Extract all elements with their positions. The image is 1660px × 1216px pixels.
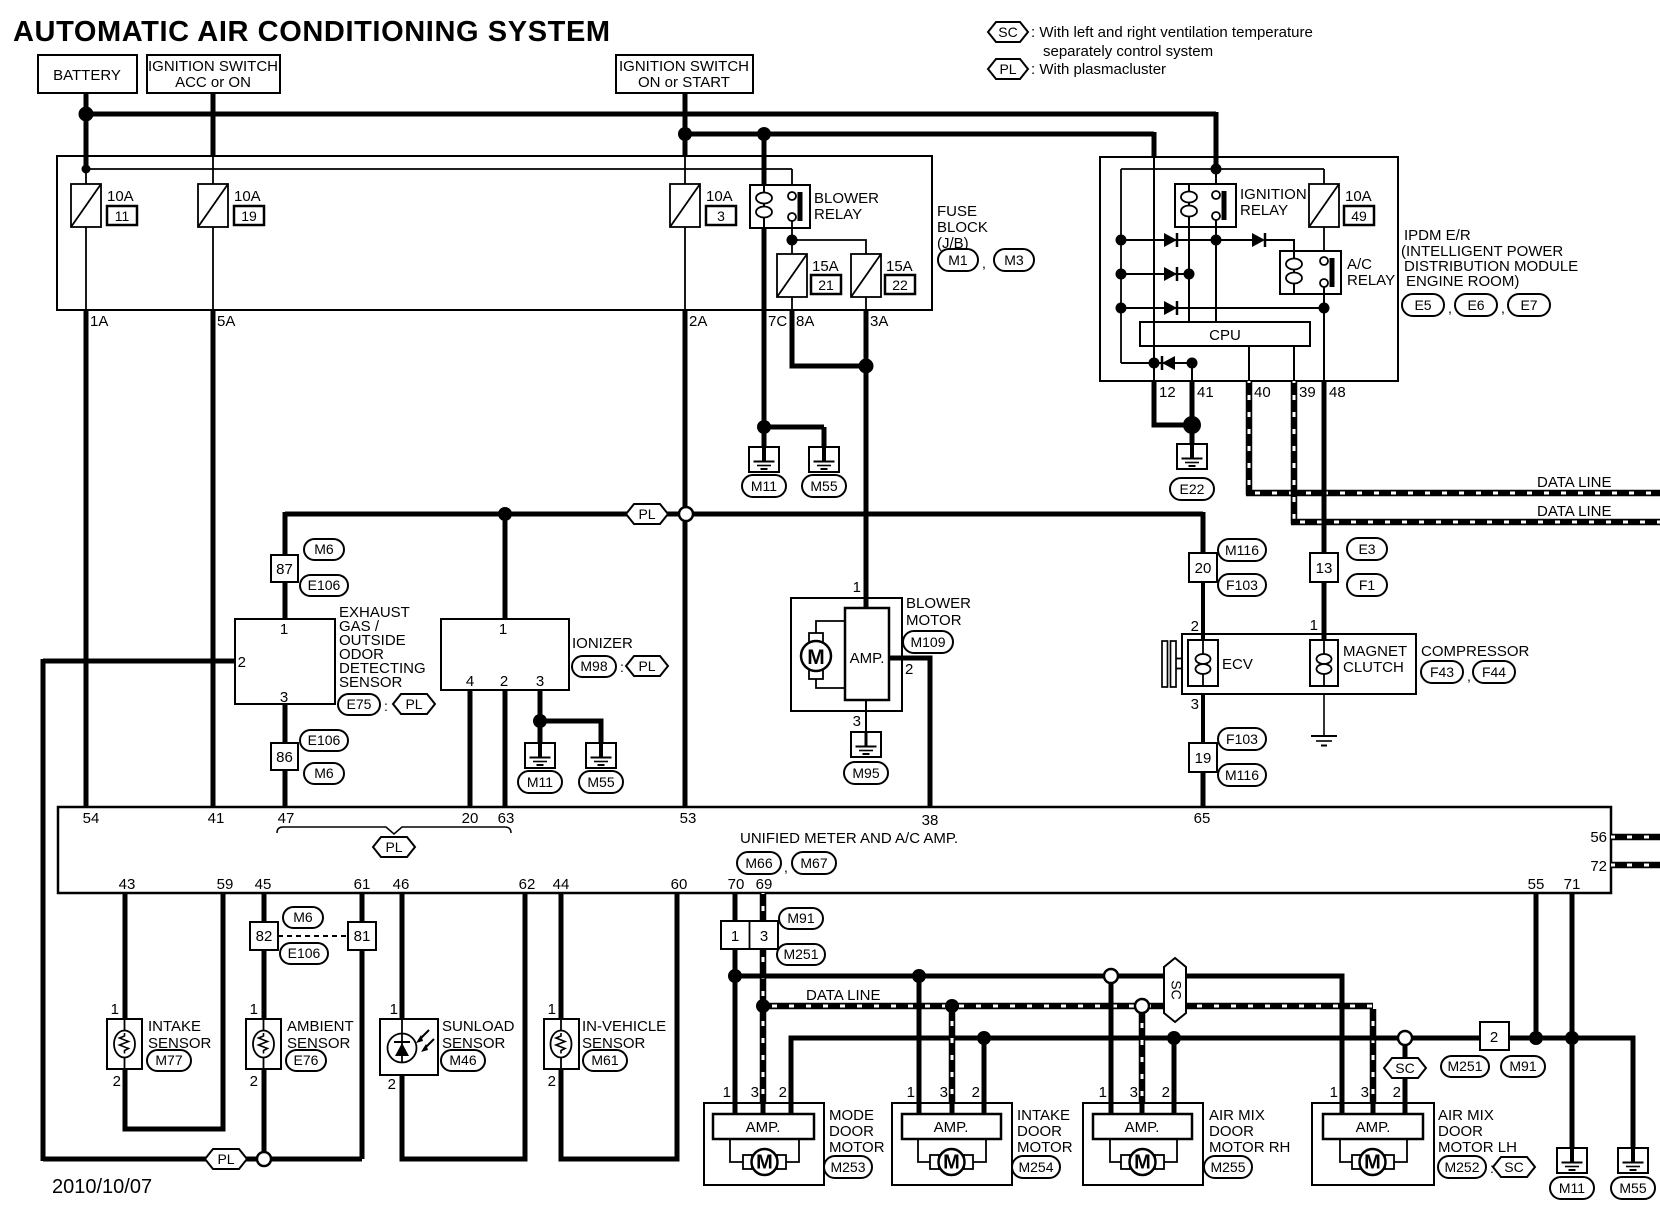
fuse 15A 21 — [777, 254, 841, 297]
ambient pin labels — [250, 1001, 258, 1090]
svg-text:2: 2 — [1393, 1084, 1401, 1101]
node ns1 intake — [912, 969, 926, 983]
wire 5A run — [211, 310, 216, 807]
connector 82 box — [250, 922, 278, 950]
connector oval E5 — [1402, 294, 1444, 316]
wire 72 data — [1611, 862, 1660, 869]
connector oval E6 — [1455, 294, 1497, 316]
air mix door motor RH — [1083, 1103, 1203, 1185]
svg-text:M: M — [1134, 1152, 1151, 1174]
diode row3 wire — [1121, 307, 1324, 309]
battery box — [38, 55, 137, 93]
connector oval E106 (86) — [300, 730, 348, 751]
svg-text:3: 3 — [536, 673, 544, 690]
node open circle ns2 — [1135, 999, 1149, 1013]
ground E22 — [1177, 444, 1207, 469]
connector oval E7 — [1508, 294, 1550, 316]
svg-text:MAGNET: MAGNET — [1343, 643, 1407, 660]
wire bus2 corner into IPDM — [1152, 132, 1157, 158]
ground M55 (bottom right) — [1618, 1148, 1648, 1173]
svg-text:E106: E106 — [308, 732, 341, 748]
wire 55 — [1534, 893, 1539, 1038]
wire ACC drop — [211, 93, 216, 157]
wire ionizer pin1 — [503, 514, 508, 619]
sunload sensor — [380, 1019, 438, 1075]
svg-text:MOTOR RH: MOTOR RH — [1209, 1139, 1290, 1156]
meter right pin labels — [1590, 829, 1607, 875]
connector 13 box — [1310, 553, 1338, 582]
wire ground branch — [540, 721, 601, 743]
svg-text:PL: PL — [217, 1151, 234, 1167]
svg-text:M77: M77 — [155, 1052, 182, 1068]
svg-text:M61: M61 — [591, 1052, 618, 1068]
ambient pin2 wire — [262, 1069, 267, 1159]
compressor box — [1182, 634, 1416, 694]
svg-text:2: 2 — [548, 1073, 556, 1090]
node ionizer ground split — [533, 714, 547, 728]
wire intake pin2 — [982, 1038, 987, 1114]
svg-text:PL: PL — [638, 658, 655, 674]
wire 8A run — [792, 310, 866, 366]
svg-text:F44: F44 — [1482, 664, 1506, 680]
svg-text:15A: 15A — [812, 258, 839, 275]
svg-text:44: 44 — [553, 876, 570, 893]
wire ECV pin3 — [1201, 694, 1205, 743]
svg-text:M6: M6 — [314, 541, 334, 557]
svg-text:MOTOR LH: MOTOR LH — [1438, 1139, 1517, 1156]
svg-text:43: 43 — [119, 876, 136, 893]
clutch earth — [1311, 694, 1337, 746]
svg-text:46: 46 — [393, 876, 410, 893]
fuse 10A 49 lead — [1323, 169, 1325, 184]
svg-text:PL: PL — [999, 61, 1016, 77]
svg-text:F43: F43 — [1430, 664, 1454, 680]
wire pin12 drop — [1154, 381, 1192, 425]
sunload pin2 wire — [402, 893, 525, 1159]
sunload pin labels — [388, 1001, 398, 1093]
PL hexagon (M98) — [626, 656, 668, 676]
svg-text:M251: M251 — [1447, 1058, 1482, 1074]
sunload label — [442, 1018, 515, 1052]
svg-text:61: 61 — [354, 876, 371, 893]
svg-text:M: M — [807, 646, 825, 669]
svg-text:7C: 7C — [768, 313, 787, 330]
connector 87 box — [271, 555, 298, 582]
connector oval M55 (ionizer) — [579, 771, 623, 793]
svg-text:3: 3 — [280, 689, 288, 706]
svg-text:3: 3 — [760, 928, 768, 945]
svg-text:5A: 5A — [217, 313, 235, 330]
svg-text:4: 4 — [466, 673, 474, 690]
connector oval M6 (87) — [304, 539, 344, 560]
node pin12 — [1149, 358, 1160, 369]
air mix rh pin labels — [1099, 1084, 1170, 1101]
svg-text:E7: E7 — [1520, 297, 1537, 313]
connector oval F44 — [1473, 661, 1515, 683]
in-vehicle sensor — [544, 1019, 579, 1069]
svg-text:22: 22 — [892, 277, 908, 293]
node ON bus at 7C — [757, 127, 771, 141]
connector 86 box — [271, 743, 298, 770]
svg-text:ON or START: ON or START — [638, 74, 730, 91]
svg-text:PL: PL — [385, 839, 402, 855]
svg-text:2: 2 — [113, 1073, 121, 1090]
wire data line 2 — [1291, 519, 1660, 526]
wire pin40 internal — [1248, 346, 1250, 381]
svg-text:2: 2 — [779, 1084, 787, 1101]
wire IPDM left rail — [1120, 169, 1122, 363]
svg-text:UNIFIED METER AND A/C AMP.: UNIFIED METER AND A/C AMP. — [740, 830, 958, 847]
air mix lh pin labels — [1330, 1084, 1401, 1101]
node open circle ns1 — [1104, 969, 1118, 983]
wire intake pin1 — [917, 976, 922, 1114]
diode row2 wire — [1121, 273, 1189, 275]
air mix lh label — [1438, 1107, 1517, 1156]
svg-text:F1: F1 — [1359, 577, 1376, 593]
connector 20 box — [1189, 553, 1217, 582]
svg-text:BATTERY: BATTERY — [53, 67, 121, 84]
connector oval M77 — [147, 1050, 191, 1071]
svg-text:21: 21 — [818, 277, 834, 293]
bus ns2 dashed — [763, 1003, 1373, 1010]
wire 71 — [1570, 893, 1575, 1148]
connector oval M6 (82) — [283, 907, 323, 928]
connector oval M67 — [792, 852, 836, 874]
node feed tap — [82, 165, 91, 174]
svg-text:RELAY: RELAY — [814, 206, 862, 223]
svg-text:E106: E106 — [308, 577, 341, 593]
svg-text:M67: M67 — [800, 855, 827, 871]
magnet clutch coil — [1310, 640, 1338, 686]
PL hexagon (bottom) — [205, 1149, 247, 1169]
connector oval M252 — [1438, 1156, 1486, 1178]
connector oval E106 (87) — [300, 575, 348, 596]
connector oval F103 (19) — [1218, 728, 1266, 750]
wire PL bus right corner — [1201, 512, 1206, 553]
blower motor brushes — [809, 633, 823, 643]
blower motor M — [801, 641, 831, 671]
svg-text:1: 1 — [1330, 1084, 1338, 1101]
svg-text:M255: M255 — [1210, 1159, 1245, 1175]
wire IPDM feed line — [1121, 168, 1324, 170]
svg-text:81: 81 — [354, 928, 371, 945]
wire fuse11 leads — [85, 169, 87, 184]
IPDM label — [1401, 227, 1578, 290]
connector oval M61 — [583, 1050, 627, 1071]
wire 3A run — [864, 310, 869, 608]
svg-text:DOOR: DOOR — [829, 1123, 874, 1140]
wire 44 — [559, 893, 564, 1019]
wire sensor pin2 — [43, 659, 235, 664]
blower motor outer box — [791, 598, 902, 711]
wire 46 — [400, 893, 405, 1019]
node 3A-8A — [859, 359, 874, 374]
svg-text:E22: E22 — [1180, 481, 1205, 497]
svg-text:: With plasmacluster: : With plasmacluster — [1031, 61, 1166, 78]
connector oval M11 (bottom right) — [1550, 1177, 1594, 1199]
svg-text:M3: M3 — [1004, 252, 1024, 268]
ignition switch ACC box — [147, 55, 280, 93]
svg-text:BLOWER: BLOWER — [906, 595, 971, 612]
connector oval M66 — [737, 852, 781, 874]
ground M11 (bottom right) — [1557, 1148, 1587, 1173]
ground M11 (ionizer) — [525, 743, 555, 768]
node row1 contact — [1211, 235, 1222, 246]
svg-text:PL: PL — [638, 506, 655, 522]
connector 2 box — [1480, 1022, 1509, 1050]
wire rh pin1 — [1109, 981, 1114, 1114]
in-vehicle label — [582, 1018, 666, 1052]
connector oval E3 — [1347, 538, 1387, 560]
svg-text:47: 47 — [278, 810, 295, 827]
svg-text:70: 70 — [728, 876, 745, 893]
intake door motor — [892, 1103, 1012, 1185]
node open circle 2A/53 — [679, 507, 693, 521]
node row3 right — [1319, 303, 1330, 314]
connector oval E106 (82) — [280, 943, 328, 964]
wire lh pin2 — [1403, 1043, 1408, 1114]
svg-text:62: 62 — [519, 876, 536, 893]
mode door motor label — [829, 1107, 885, 1156]
wire data line 1 — [1246, 490, 1660, 497]
ignition relay — [1175, 184, 1236, 227]
connector oval M109 — [903, 631, 953, 653]
svg-text:3: 3 — [1361, 1084, 1369, 1101]
wire fuse21 tail — [791, 297, 793, 310]
connector oval M11 (ionizer) — [518, 771, 562, 793]
unified meter box — [58, 807, 1611, 893]
connector oval M55 (blower) — [802, 475, 846, 497]
svg-text:IONIZER: IONIZER — [572, 635, 633, 652]
connector oval M251 (bottom) — [1441, 1056, 1489, 1077]
svg-text:2: 2 — [972, 1084, 980, 1101]
magnet clutch label — [1343, 643, 1407, 676]
bus ns1 solid — [735, 976, 1342, 1114]
svg-text:MOTOR: MOTOR — [829, 1139, 885, 1156]
svg-text:M55: M55 — [587, 774, 614, 790]
wire 2A run — [683, 310, 688, 514]
fuse 15A 22 — [851, 254, 915, 297]
svg-text:BLOWER: BLOWER — [814, 190, 879, 207]
svg-text:M: M — [1364, 1152, 1381, 1174]
meter top pin labels — [83, 810, 1211, 829]
connector oval F103 (20) — [1218, 574, 1266, 596]
node 71 — [1565, 1031, 1579, 1045]
svg-text:RELAY: RELAY — [1347, 272, 1395, 289]
diode D4 — [1164, 301, 1177, 315]
wire internal feed line — [86, 168, 792, 170]
wire 7C drop to relay — [762, 134, 767, 185]
wire pin39 internal — [1293, 346, 1295, 381]
node row3 left — [1116, 303, 1127, 314]
wire left rail down — [41, 659, 46, 1161]
svg-text:19: 19 — [1195, 750, 1212, 767]
node E22 junction — [1183, 416, 1201, 434]
wire 7C branch — [764, 425, 824, 430]
wire sensor pin3 — [283, 704, 288, 743]
wire 7C run — [762, 228, 767, 447]
node open circle ambient — [257, 1152, 271, 1166]
SC hexagon (M252) — [1493, 1157, 1535, 1177]
wire 86 to meter — [283, 770, 288, 807]
svg-text:E5: E5 — [1414, 297, 1431, 313]
svg-text:1A: 1A — [90, 313, 108, 330]
wire ON bus — [685, 132, 1154, 137]
svg-text:COMPRESSOR: COMPRESSOR — [1421, 643, 1530, 660]
svg-text:1: 1 — [499, 621, 507, 638]
svg-text:41: 41 — [1197, 384, 1214, 401]
svg-text:86: 86 — [276, 749, 293, 766]
fuse 10A 49 — [1309, 184, 1374, 227]
svg-text:M98: M98 — [580, 658, 607, 674]
wire pin48 drop — [1322, 381, 1327, 553]
svg-text:M253: M253 — [830, 1159, 865, 1175]
connector oval M254 — [1012, 1156, 1060, 1178]
connector oval E22 — [1170, 478, 1214, 500]
wire PL bus — [285, 512, 1203, 517]
wire relay contact down — [791, 221, 793, 254]
wire clutch pin1 — [1322, 582, 1327, 640]
wire 53 run — [683, 514, 688, 807]
mode door motor — [704, 1103, 824, 1185]
svg-text:,: , — [1448, 300, 1452, 316]
svg-text:10A: 10A — [706, 188, 733, 205]
svg-text:AMBIENT: AMBIENT — [287, 1018, 354, 1035]
connector oval M6 (86) — [304, 763, 344, 784]
svg-text:49: 49 — [1351, 208, 1367, 224]
wire 87 to sensor — [283, 582, 288, 619]
svg-text:10A: 10A — [107, 188, 134, 205]
bottom PL wire — [43, 1157, 362, 1162]
svg-text:E3: E3 — [1358, 541, 1375, 557]
svg-text:M254: M254 — [1018, 1159, 1053, 1175]
svg-text:FUSE: FUSE — [937, 203, 977, 220]
connector oval M11 (blower) — [742, 475, 786, 497]
svg-text:55: 55 — [1528, 876, 1545, 893]
meter bottom pin labels — [119, 876, 1581, 893]
connector oval M98 — [572, 656, 616, 677]
svg-text:RELAY: RELAY — [1240, 202, 1288, 219]
svg-text:SC: SC — [1504, 1159, 1523, 1175]
diode D3 — [1164, 267, 1177, 281]
node ns2 69 — [756, 999, 770, 1013]
wire fuse49 to AC contact — [1323, 227, 1325, 257]
svg-text:IN-VEHICLE: IN-VEHICLE — [582, 1018, 666, 1035]
svg-text:DOOR: DOOR — [1017, 1123, 1062, 1140]
node relay out — [787, 235, 798, 246]
svg-text:8A: 8A — [796, 313, 814, 330]
svg-text:2: 2 — [905, 661, 913, 678]
svg-text::: : — [620, 659, 624, 675]
SC hexagon (lh pin2) — [1384, 1058, 1426, 1078]
svg-text:82: 82 — [256, 928, 273, 945]
in-vehicle pin labels — [548, 1001, 556, 1090]
AC relay label — [1347, 256, 1395, 289]
AC relay — [1280, 251, 1341, 294]
svg-text:M55: M55 — [810, 478, 837, 494]
svg-text:PL: PL — [405, 696, 422, 712]
svg-text:48: 48 — [1329, 384, 1346, 401]
svg-text:M11: M11 — [527, 774, 553, 790]
svg-text:DATA LINE: DATA LINE — [1537, 503, 1611, 520]
ground M95 — [851, 732, 881, 757]
svg-text:2: 2 — [1162, 1084, 1170, 1101]
svg-text:DATA LINE: DATA LINE — [806, 987, 880, 1004]
mode door motor pin labels — [723, 1084, 787, 1101]
ground M11 (blower) — [749, 447, 779, 472]
svg-text:F103: F103 — [1226, 577, 1258, 593]
IPDM E/R box — [1100, 157, 1398, 381]
legend SC hexagon — [988, 22, 1028, 42]
connector oval M1 — [938, 249, 978, 271]
svg-text:1: 1 — [250, 1001, 258, 1018]
svg-text:1: 1 — [723, 1084, 731, 1101]
wire rh pin2 — [1172, 1038, 1177, 1114]
node ns3 rh — [1167, 1031, 1181, 1045]
svg-text:MOTOR: MOTOR — [906, 612, 962, 629]
diode D5 — [1162, 356, 1175, 370]
ground M55 (ionizer) — [586, 743, 616, 768]
ignition relay label — [1240, 186, 1307, 219]
svg-text:A/C: A/C — [1347, 256, 1372, 273]
node 7C split — [757, 420, 771, 434]
air mix door motor LH — [1312, 1103, 1434, 1185]
svg-text:M251: M251 — [783, 946, 818, 962]
svg-text:IGNITION SWITCH: IGNITION SWITCH — [619, 58, 749, 75]
wire fuse22 tail — [865, 297, 867, 310]
svg-text:1: 1 — [1099, 1084, 1107, 1101]
wire bus corner to IPDM — [1214, 112, 1219, 172]
svg-text:60: 60 — [671, 876, 688, 893]
svg-text:DOOR: DOOR — [1209, 1123, 1254, 1140]
ECV coil — [1188, 640, 1218, 686]
svg-text:AIR MIX: AIR MIX — [1209, 1107, 1265, 1124]
connector oval F1 — [1347, 574, 1387, 596]
connector oval E75 — [338, 694, 380, 715]
CPU box — [1140, 322, 1310, 346]
wire M55 drop — [822, 427, 827, 447]
exhaust gas sensor box — [235, 619, 335, 704]
svg-text:M55: M55 — [1619, 1180, 1646, 1196]
svg-text:56: 56 — [1590, 829, 1607, 846]
svg-text:40: 40 — [1254, 384, 1271, 401]
svg-text:ACC or ON: ACC or ON — [175, 74, 251, 91]
intake door motor pin labels — [907, 1084, 980, 1101]
wire 1A run — [84, 310, 89, 807]
svg-text::: : — [384, 698, 388, 714]
svg-text:69: 69 — [756, 876, 773, 893]
node battery bus — [79, 107, 94, 122]
intake door motor label — [1017, 1107, 1073, 1156]
svg-text:3: 3 — [940, 1084, 948, 1101]
svg-text:12: 12 — [1159, 384, 1176, 401]
wire ECV pin2 — [1201, 582, 1205, 640]
connector oval M3 — [994, 249, 1034, 271]
svg-text:E76: E76 — [294, 1052, 319, 1068]
intake pin labels — [111, 1001, 121, 1090]
wire pin40 data drop — [1246, 381, 1253, 495]
svg-text:M1: M1 — [948, 252, 968, 268]
svg-text:M11: M11 — [1559, 1180, 1585, 1196]
node ON bus at 2A — [678, 127, 692, 141]
intake sensor — [107, 1019, 142, 1069]
svg-text:SC: SC — [998, 24, 1017, 40]
svg-text:1: 1 — [390, 1001, 398, 1018]
svg-text:CLUTCH: CLUTCH — [1343, 659, 1404, 676]
svg-text:AMP.: AMP. — [1125, 1119, 1160, 1136]
svg-text:1: 1 — [853, 579, 861, 596]
svg-text:2: 2 — [1191, 618, 1199, 635]
